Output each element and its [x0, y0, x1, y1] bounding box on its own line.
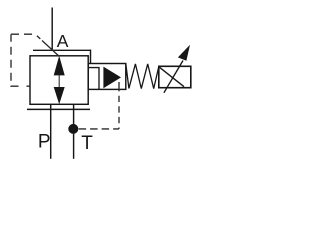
adjustment arrow shaft: [164, 61, 183, 93]
pilot seat channel: [88, 68, 99, 90]
poppet stem: [58, 75, 60, 87]
drain line: dashed horizontal to T node: [79, 128, 119, 130]
svg-text:A: A: [57, 31, 69, 51]
svg-text:T: T: [81, 133, 93, 154]
main poppet up arrow: [54, 56, 65, 76]
pilot poppet: [103, 67, 121, 89]
node: junction dot on T line: [68, 124, 78, 134]
mounting face line (bottom): [27, 108, 90, 110]
adjustment arrow head: [178, 45, 190, 61]
wire: A channel line: [33, 49, 91, 51]
drain line: dashed vertical from pilot box: [118, 82, 120, 129]
main valve body: [30, 56, 88, 105]
proportional solenoid box: [159, 66, 191, 87]
main poppet down arrow: [54, 87, 65, 104]
pilot spring: [126, 64, 159, 89]
pilot line (dashed rectangle, left): [11, 33, 37, 35]
port A line: [51, 8, 53, 51]
pilot relief valve box: [88, 64, 126, 90]
port P line: [50, 104, 52, 159]
solenoid stroke (diagonal): [160, 67, 185, 86]
svg-text:P: P: [38, 131, 51, 152]
port T line: [73, 104, 75, 159]
wire: step down to pilot box: [90, 50, 92, 64]
seat diagonal (pilot sense to poppet tip): [37, 36, 59, 57]
